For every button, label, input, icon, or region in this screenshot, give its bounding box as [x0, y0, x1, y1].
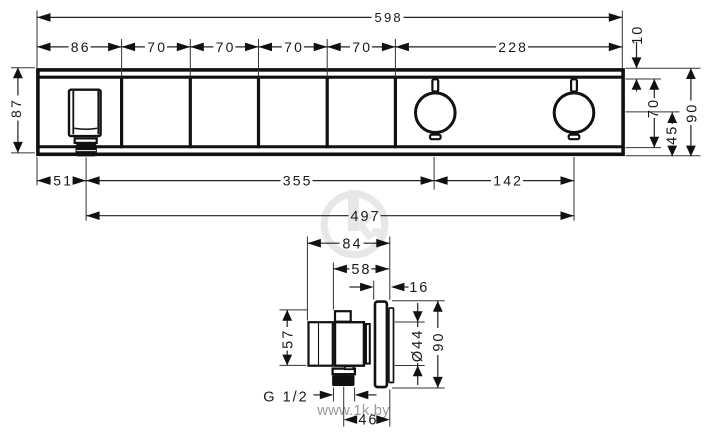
- extension line thread centre: [343, 387, 345, 427]
- extension line 58 left: [332, 263, 334, 310]
- svg-text:228: 228: [498, 39, 528, 55]
- svg-text:84: 84: [342, 236, 362, 252]
- dimension 497: [86, 209, 574, 225]
- svg-text:G 1/2: G 1/2: [263, 389, 308, 405]
- watermark logo circle: [324, 190, 384, 255]
- right side extension lines: [626, 67, 701, 69]
- dimension 90 lower: [431, 301, 447, 388]
- outlet collar: [333, 369, 355, 375]
- dimension 87 left: [8, 67, 35, 152]
- knob 2 circle: [554, 93, 594, 133]
- knob 1 circle: [416, 93, 456, 133]
- knob 1 index tick: [432, 79, 438, 91]
- dimension 57: [280, 310, 308, 366]
- divider 1: [120, 77, 123, 148]
- dimension 45 right: [665, 112, 681, 156]
- flange plate: [375, 302, 387, 388]
- svg-text:497: 497: [350, 209, 380, 225]
- knob 2 index tick: [571, 79, 577, 91]
- svg-text:70: 70: [216, 39, 236, 55]
- svg-text:10: 10: [630, 25, 646, 45]
- svg-text:90: 90: [684, 103, 700, 123]
- dimension 70 right: [646, 79, 662, 148]
- panel face lower line: [36, 145, 624, 148]
- extension line flange front: [373, 281, 375, 300]
- valve body: [335, 322, 364, 366]
- dimension 90 right: [684, 68, 700, 156]
- extension line seg 86/70: [121, 39, 123, 78]
- knob 1 bottom tab: [430, 135, 441, 140]
- svg-text:598: 598: [375, 10, 403, 25]
- dimension 84: [307, 236, 389, 252]
- dimension D44: [410, 303, 426, 385]
- extension line knob2 centre: [573, 157, 575, 221]
- panel face upper line: [36, 76, 624, 79]
- supply connector: [309, 322, 333, 366]
- svg-text:51: 51: [53, 173, 73, 189]
- shower holder collar: [75, 138, 97, 143]
- svg-text:16: 16: [409, 280, 429, 296]
- shower holder body: [69, 90, 101, 136]
- svg-text:45: 45: [665, 125, 681, 145]
- dimension 58: [333, 262, 389, 278]
- extension line wall face lower: [389, 390, 391, 427]
- divider 5: [394, 77, 397, 148]
- dimension row 51/355/142: [37, 173, 574, 189]
- body top step: [335, 311, 351, 322]
- divider 2: [189, 77, 192, 148]
- extension line seg 70/70 c: [326, 39, 328, 78]
- dimension row 86/70/70/70/70/228: [37, 39, 622, 55]
- svg-text:70: 70: [284, 39, 304, 55]
- label G 1/2: [263, 389, 376, 405]
- svg-text:57: 57: [280, 329, 296, 349]
- connector face line: [318, 323, 320, 367]
- extension line seg 70/70 b: [258, 39, 260, 78]
- svg-text:86: 86: [71, 39, 91, 55]
- dimension 598: [37, 10, 622, 25]
- extension line thread right: [354, 388, 356, 402]
- svg-text:70: 70: [352, 39, 372, 55]
- svg-text:142: 142: [493, 173, 523, 189]
- flange right cap: [389, 308, 394, 383]
- svg-text:46: 46: [358, 413, 378, 429]
- svg-text:87: 87: [8, 98, 24, 118]
- divider 4: [326, 77, 329, 148]
- panel outline: [38, 70, 623, 154]
- dimension 16: [350, 280, 430, 296]
- extension line right end top: [621, 11, 623, 69]
- svg-text:90: 90: [431, 332, 447, 352]
- lower right extension lines: [392, 300, 445, 302]
- dimension 10 right: [630, 25, 646, 92]
- svg-text:70: 70: [646, 98, 662, 118]
- extension line below panel left: [36, 157, 38, 185]
- knob 2 bottom tab: [569, 135, 580, 140]
- extension line seg 70/70 a: [189, 39, 191, 78]
- shower holder hose rings: [76, 144, 97, 157]
- extension line thread left: [333, 388, 335, 402]
- body right section: [366, 324, 370, 364]
- svg-text:Ø44: Ø44: [410, 329, 426, 362]
- extension line wall face: [389, 237, 391, 300]
- svg-text:70: 70: [147, 39, 167, 55]
- dimension 46: [344, 413, 390, 429]
- outlet tab: [345, 366, 354, 369]
- extension line 84 left: [306, 237, 308, 321]
- extension line left end top: [36, 11, 38, 69]
- extension line seg 70/228: [394, 39, 396, 78]
- extension line holder centre: [85, 158, 87, 221]
- svg-text:58: 58: [351, 262, 371, 278]
- divider 3: [257, 77, 260, 148]
- svg-text:355: 355: [283, 173, 313, 189]
- threaded outlet G1/2: [332, 375, 354, 386]
- extension line knob1 centre: [433, 157, 435, 190]
